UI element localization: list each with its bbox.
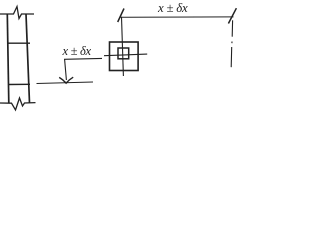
column mid horizontal line (8, 42, 30, 44)
left dimension tick (118, 9, 124, 23)
column right vertical line (26, 14, 30, 103)
leader arrowhead (59, 77, 73, 83)
right dimension tick (228, 8, 236, 23)
leader vertical line (65, 59, 67, 80)
column bottom line with break zigzag (0, 98, 36, 110)
vertical centerline of bolt (122, 17, 124, 76)
dimension line (120, 16, 233, 18)
inner square (anchor bolt) (118, 48, 129, 59)
svg-text:x ± δx: x ± δx (62, 44, 92, 58)
dash-dot axis line (231, 20, 232, 67)
column top flange line with break zigzag (0, 7, 34, 19)
column base plate line (8, 83, 30, 85)
svg-text:x ± δx: x ± δx (157, 1, 188, 15)
horizontal centerline of bolt (104, 54, 147, 56)
outer square (design position) (110, 42, 139, 71)
column left vertical line (7, 14, 9, 103)
leader shelf line (64, 57, 102, 60)
ground line (37, 82, 94, 84)
